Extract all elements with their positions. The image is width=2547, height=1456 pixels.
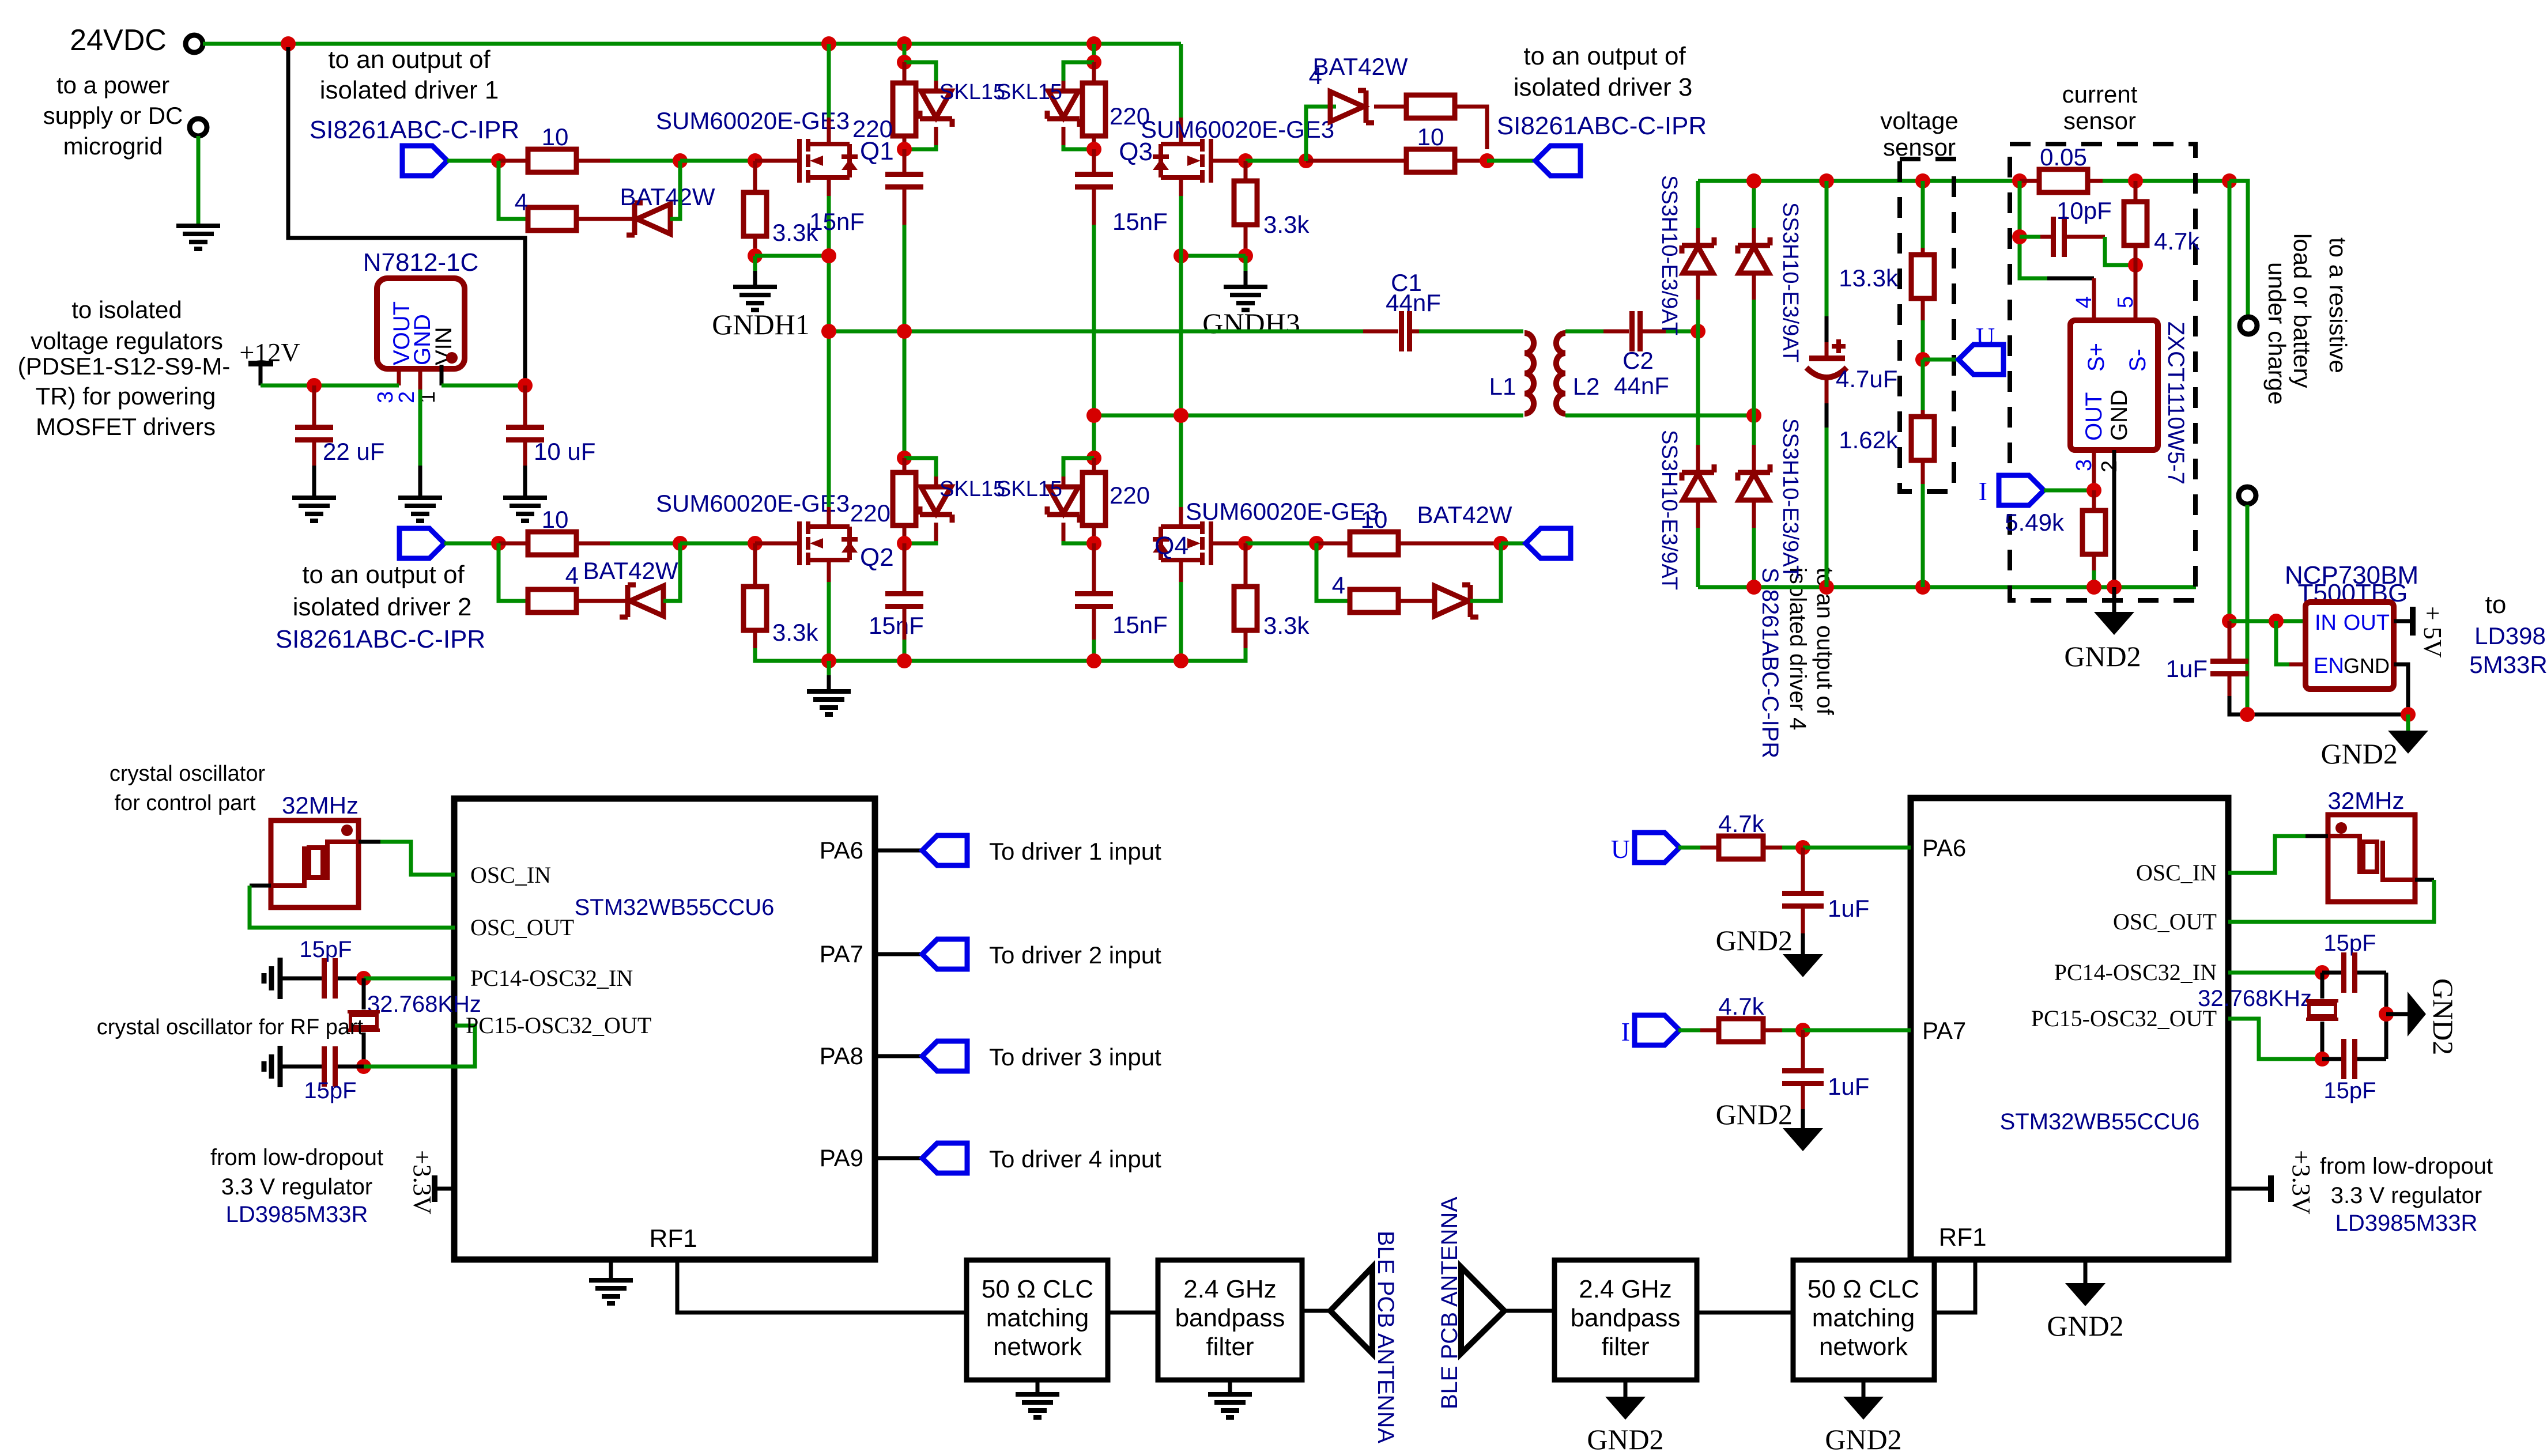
capacitor 15nF snubber4 bottom lead: [1092, 609, 1096, 640]
svg-text:to an output of: to an output of: [302, 561, 465, 589]
resistor 220 snubber1 lead: [903, 62, 907, 83]
crystal 32.768KHz right: [2306, 1001, 2338, 1019]
junction driver2 B: [673, 536, 688, 551]
junction snubber1 bottom: [897, 142, 912, 157]
regulator N7812-1C body: [377, 278, 465, 369]
svg-text:GND2: GND2: [2321, 738, 2398, 770]
wire OSC_IN left: [359, 840, 380, 844]
ground below 22uF: [292, 498, 336, 521]
svg-text:To driver 3 input: To driver 3 input: [989, 1043, 1161, 1071]
svg-text:SKL15: SKL15: [939, 80, 1005, 104]
svg-text:15nF: 15nF: [1112, 208, 1168, 235]
wire 4 to diode driver2: [576, 599, 628, 603]
wire 3.3k Q4 to gnd bus: [1181, 648, 1246, 661]
resistor 4.7k I right lead: [1763, 1028, 1782, 1033]
junction PC14 right: [2315, 965, 2330, 980]
svg-text:SI8261ABC-C-IPR: SI8261ABC-C-IPR: [310, 116, 519, 144]
capacitor 10pF right lead: [2067, 235, 2105, 239]
diode SKL15 snubber2: [1047, 91, 1080, 127]
wire VIN rail right: [442, 384, 525, 388]
junction gate Q1 / 3.3k: [748, 153, 763, 168]
power +5V symbol: [2410, 607, 2416, 636]
wire 24VDC to VIN (black): [288, 47, 525, 382]
svg-text:isolated driver 2: isolated driver 2: [293, 593, 472, 621]
ground GND2 ncp: [2388, 731, 2428, 754]
resistor 4 driver4: [1350, 589, 1398, 612]
svg-text:+3.3V: +3.3V: [2287, 1150, 2315, 1215]
resistor 220 snubber3 bottom lead: [903, 525, 907, 543]
svg-text:network: network: [1819, 1333, 1908, 1361]
wire GNDH3 stem: [1244, 256, 1248, 271]
svg-text:SS3H10-E3/9AT: SS3H10-E3/9AT: [1657, 175, 1681, 335]
svg-text:4: 4: [515, 188, 528, 215]
crystal 32MHz left internals: [271, 842, 359, 886]
svg-text:STM32WB55CCU6: STM32WB55CCU6: [575, 895, 775, 920]
svg-text:220: 220: [850, 500, 890, 527]
wire GND2 stem zxct: [2112, 587, 2116, 612]
resistor 5.49k: [2082, 510, 2105, 554]
svg-text:4: 4: [1309, 62, 1322, 89]
resistor 4 driver3: [1406, 95, 1455, 118]
wire U to 4.7k: [1678, 846, 1700, 850]
svg-text:I: I: [1979, 476, 1987, 506]
pin PA7 stub: [875, 952, 922, 956]
ground GND2 matching right: [1843, 1397, 1884, 1420]
junction driver4 B: [1493, 536, 1508, 551]
svg-text:5M33R: 5M33R: [2469, 651, 2547, 678]
junction busB snubber2 column: [1086, 408, 1101, 423]
pin OUT ncp lead: [2394, 619, 2411, 623]
wire DC+ to NCP in: [2228, 181, 2232, 621]
capacitor C1 right lead: [1412, 330, 1419, 334]
junction DC+ D2: [1746, 173, 1761, 188]
svg-text:current: current: [2062, 81, 2138, 108]
wire C2 to rectifier mid1: [1666, 330, 1698, 334]
junction DC- divider: [1915, 580, 1930, 595]
svg-text:24VDC: 24VDC: [70, 24, 167, 57]
resistor 4 driver2: [528, 589, 576, 612]
wire DC+ to terminal: [2229, 181, 2248, 316]
junction top rail / snubber2: [1086, 36, 1101, 51]
svg-text:OSC_OUT: OSC_OUT: [2113, 909, 2217, 935]
svg-text:isolated driver 4: isolated driver 4: [1785, 568, 1810, 730]
svg-text:RF1: RF1: [649, 1224, 697, 1253]
wire gate Q1: [680, 159, 755, 163]
junction driver1 A: [491, 153, 506, 168]
capacitor 15pF left top: [322, 958, 338, 999]
pin GND lead: [418, 369, 422, 389]
capacitor 1uF bottom lead: [2228, 676, 2232, 696]
capacitor 4.7uF lead top: [1825, 181, 1829, 316]
wire OSC_OUT left: [250, 884, 271, 888]
resistor 10 driver1: [528, 149, 576, 172]
connector to driver4 input: [922, 1143, 967, 1173]
svg-text:GND2: GND2: [1587, 1423, 1663, 1455]
svg-text:SUM60020E-GE3: SUM60020E-GE3: [1186, 498, 1379, 525]
svg-text:SKL15: SKL15: [939, 477, 1005, 501]
svg-text:C2: C2: [1622, 347, 1654, 374]
svg-text:5: 5: [2114, 296, 2138, 308]
connector driver3 output: [1535, 146, 1580, 176]
wire driver1 lower branch left: [499, 161, 528, 219]
svg-text:10pF: 10pF: [2057, 197, 2112, 224]
wire L1 bottom to bus B: [1094, 414, 1523, 418]
svg-text:Q3: Q3: [1119, 138, 1153, 166]
capacitor 15nF snubber4: [1075, 591, 1113, 609]
ground GNDH3 symbol: [1224, 287, 1267, 310]
antenna BLE right: [1461, 1267, 1504, 1353]
IC NCP730 body: [2305, 602, 2394, 689]
capacitor 15pF right top lead: [2322, 971, 2341, 975]
box matching network left: [967, 1260, 1108, 1380]
svg-text:matching: matching: [986, 1304, 1089, 1332]
diode SKL15 snubber4: [1047, 487, 1080, 523]
junction rectifier mid1: [1691, 324, 1705, 339]
resistor 220 snubber2 bottom lead: [1092, 136, 1096, 149]
transistor Q2: [799, 521, 850, 565]
svg-text:GND: GND: [2107, 389, 2132, 441]
diode BAT42W driver1: [627, 203, 670, 235]
wire 3.3k to source Q1: [755, 254, 829, 258]
junction I / 5.49k: [2086, 483, 2101, 498]
junction snubber4 bottom: [1086, 536, 1101, 551]
wire top rail corner to Q3 drain: [1179, 44, 1183, 118]
junction out- gnd2: [2240, 707, 2255, 722]
svg-text:(PDSE1-S12-S9-M-: (PDSE1-S12-S9-M-: [18, 353, 231, 380]
ground matching left stem: [1036, 1380, 1040, 1394]
resistor 220 snubber2: [1082, 83, 1105, 136]
svg-text:OUT: OUT: [2081, 392, 2107, 441]
box matching network right: [1793, 1260, 1934, 1380]
svg-text:3.3 V regulator: 3.3 V regulator: [2331, 1183, 2482, 1208]
terminal out-: [2239, 487, 2256, 504]
svg-text:PA8: PA8: [820, 1042, 863, 1069]
wire 4 to diode driver4: [1398, 599, 1435, 603]
junction driver2 A: [491, 536, 506, 551]
wire snubber1 top: [903, 44, 907, 62]
diode D1 SS3H10: [1682, 237, 1714, 273]
antenna BLE left: [1330, 1267, 1372, 1353]
svg-text:22 uF: 22 uF: [323, 438, 384, 465]
resistor 13.3k: [1911, 255, 1934, 298]
capacitor 10uF lead: [523, 385, 527, 425]
diode D4 SS3H10 cathode lead: [1752, 415, 1756, 445]
ground matching left: [1016, 1394, 1059, 1417]
svg-text:S+: S+: [2084, 343, 2109, 372]
svg-text:LD398: LD398: [2474, 622, 2546, 649]
junction DC- filter cap: [1819, 580, 1834, 595]
IC ZXCT1110 body: [2070, 320, 2158, 450]
svg-text:isolated driver 3: isolated driver 3: [1514, 73, 1693, 101]
svg-text:PC15-OSC32_OUT: PC15-OSC32_OUT: [2031, 1005, 2217, 1031]
ground bandpass left: [1208, 1394, 1252, 1417]
resistor 4.7k U: [1719, 836, 1763, 859]
svg-text:L1: L1: [1489, 373, 1516, 400]
diode D2 SS3H10 cathode lead: [1752, 181, 1756, 228]
junction driver3 B: [1480, 153, 1495, 168]
resistor 220 snubber4: [1082, 472, 1105, 525]
pin VIN lead: [440, 365, 444, 385]
junction gnd2 crystals right: [2379, 1007, 2394, 1022]
svg-text:load or battery: load or battery: [2289, 233, 2316, 388]
diode SKL15 snubber3: [920, 487, 952, 523]
ground GND2 zxct: [2094, 612, 2134, 635]
svg-text:OSC_IN: OSC_IN: [2136, 860, 2217, 886]
resistor 3.3k Q4: [1234, 587, 1257, 630]
wire snubber3 top: [903, 331, 907, 458]
capacitor 1uF I: [1782, 1068, 1824, 1086]
crystal 32MHz right internals: [2328, 836, 2415, 880]
capacitor C2 44nF: [1629, 311, 1643, 351]
svg-text:44nF: 44nF: [1614, 372, 1669, 399]
svg-text:13.3k: 13.3k: [1839, 264, 1899, 292]
resistor 3.3k Q4 lead: [1244, 543, 1248, 587]
svg-text:BAT42W: BAT42W: [1417, 501, 1512, 528]
svg-text:I: I: [1621, 1017, 1630, 1046]
ground primary GND: [807, 691, 851, 714]
wire driver3 upper branch: [1306, 107, 1336, 161]
crystal 32MHz right box: [2328, 815, 2415, 902]
ground left MCU: [589, 1280, 633, 1303]
junction snubber1 top: [897, 55, 912, 70]
wire DC- rail: [1698, 585, 2196, 589]
svg-text:3.3 V regulator: 3.3 V regulator: [221, 1174, 372, 1200]
IC right STM32WB55CCU6 body: [1911, 798, 2228, 1260]
wire gate Q3 to driver3: [1246, 159, 1306, 163]
svg-text:bandpass: bandpass: [1571, 1304, 1681, 1332]
wire diode to junction B driver4: [1470, 543, 1501, 601]
wire U connector: [1923, 358, 1959, 362]
resistor 13.3k bottom lead: [1921, 298, 1925, 320]
ground below regulator: [398, 498, 442, 521]
capacitor 10pF: [2051, 217, 2067, 257]
wire ground bus: [829, 659, 1181, 663]
junction gndbus snubber4: [1086, 653, 1101, 668]
diode SKL15 snubber1: [920, 91, 952, 127]
svg-text:32.768KHz: 32.768KHz: [367, 992, 481, 1017]
svg-text:+ 5V: + 5V: [2418, 606, 2447, 658]
capacitor C1 left lead: [1363, 330, 1398, 334]
svg-text:+12V: +12V: [239, 338, 300, 367]
wire 4 to diode driver1: [576, 217, 635, 221]
wire to PA7 pin: [1803, 1028, 1911, 1033]
terminal out+: [2240, 317, 2257, 334]
resistor 4.7k bottom lead: [2134, 245, 2138, 265]
diode SKL15 snubber3 bottom lead: [934, 523, 938, 541]
capacitor 15nF snubber4 lead: [1092, 543, 1096, 591]
wire 24VDC- to ground: [197, 136, 201, 226]
wire matching right to RF1 right: [1934, 1260, 1975, 1313]
svg-text:+3.3V: +3.3V: [408, 1150, 436, 1215]
resistor 10 driver2 right lead: [576, 542, 610, 546]
resistor 220 snubber3 lead: [903, 458, 907, 472]
svg-text:OSC_IN: OSC_IN: [470, 862, 551, 888]
junction source Q1 / 3.3k link: [821, 248, 836, 263]
svg-text:sensor: sensor: [2063, 107, 2136, 134]
resistor 4.7k U right lead: [1763, 846, 1782, 850]
svg-text:to an output of: to an output of: [328, 46, 490, 74]
svg-text:PC15-OSC32_OUT: PC15-OSC32_OUT: [466, 1012, 651, 1038]
svg-text:10 uF: 10 uF: [534, 438, 595, 465]
capacitor 15nF snubber2: [1075, 172, 1113, 190]
svg-text:L2: L2: [1573, 373, 1600, 400]
connector to driver2 input: [922, 939, 967, 969]
svg-text:GND2: GND2: [1716, 924, 1793, 956]
junction DC+ filter cap: [1819, 173, 1834, 188]
chassis gnd left top: [264, 958, 280, 999]
wire resistor4 driver3 to junction: [1455, 107, 1487, 149]
svg-text:3.3k: 3.3k: [1263, 612, 1310, 639]
wire GND2 stem ncp: [2406, 714, 2410, 731]
junction 10pF tap: [2012, 229, 2027, 244]
wire bandpass to matching right: [1697, 1311, 1793, 1315]
pin PA9 stub: [875, 1156, 922, 1160]
resistor 3.3k Q3: [1234, 181, 1257, 225]
resistor 10 driver1 right lead: [576, 159, 610, 163]
svg-text:GNDH3: GNDH3: [1202, 307, 1300, 339]
svg-text:U: U: [1611, 834, 1630, 864]
junction ncp gnd2: [2401, 707, 2416, 722]
wire snubber4 top: [1092, 415, 1096, 458]
svg-text:network: network: [993, 1333, 1082, 1361]
svg-text:MOSFET drivers: MOSFET drivers: [36, 413, 216, 440]
ground GND2 U: [1783, 954, 1823, 977]
wire snubber1 diode top link: [904, 62, 936, 81]
svg-text:to a resistive: to a resistive: [2325, 237, 2352, 373]
resistor 3.3k Q2: [744, 587, 767, 630]
wire bandpass to antenna left: [1302, 1309, 1331, 1313]
junction busA snubber1 column: [897, 324, 912, 339]
wire driver4 lower branch: [1316, 543, 1350, 601]
svg-text:5.49k: 5.49k: [2005, 509, 2065, 536]
svg-text:OUT: OUT: [2344, 611, 2390, 635]
svg-text:15pF: 15pF: [2323, 931, 2376, 956]
ground below 10uF: [503, 498, 547, 521]
resistor 5.49k bottom lead: [2092, 554, 2096, 570]
junction top rail / Q1 drain: [821, 36, 836, 51]
wire snubber4 diode top link: [1063, 458, 1094, 476]
wire PC15 left: [364, 1026, 475, 1067]
svg-text:bandpass: bandpass: [1175, 1304, 1285, 1332]
wire NCP in: [2229, 619, 2305, 623]
pin GND ncp lead: [2394, 664, 2408, 714]
svg-text:44nF: 44nF: [1386, 289, 1441, 316]
pin S+ lead: [2092, 278, 2096, 320]
diode SKL15 snubber4 bottom lead: [1062, 523, 1066, 541]
wire 10pF to S-: [2105, 237, 2135, 265]
resistor 0.05 shunt lead: [2020, 179, 2039, 183]
svg-text:crystal oscillator: crystal oscillator: [110, 762, 266, 786]
wire antenna to bandpass right: [1504, 1309, 1554, 1313]
svg-text:OSC_OUT: OSC_OUT: [470, 914, 574, 940]
svg-text:10: 10: [542, 506, 569, 533]
diode D4 SS3H10: [1738, 464, 1770, 500]
wire bus A (switch node 1): [829, 330, 1363, 334]
svg-text:IN: IN: [2315, 611, 2337, 635]
junction gate Q4 / 3.3k: [1238, 536, 1253, 551]
wire RF1 left: [677, 1260, 967, 1313]
svg-text:LD3985M33R: LD3985M33R: [226, 1202, 368, 1227]
svg-text:N7812-1C: N7812-1C: [363, 248, 479, 277]
svg-text:GND2: GND2: [1825, 1423, 1901, 1455]
connector U: [1959, 345, 2003, 375]
svg-text:0.05: 0.05: [2040, 143, 2087, 171]
svg-text:3: 3: [373, 391, 398, 403]
svg-text:To driver 1 input: To driver 1 input: [989, 838, 1161, 865]
svg-text:1uF: 1uF: [1828, 1073, 1869, 1100]
ground GND2 right MCU: [2065, 1283, 2105, 1306]
inductor L2 (secondary): [1556, 333, 1565, 414]
capacitor 1uF U lead: [1801, 848, 1805, 891]
svg-text:ZXCT1110W5-7: ZXCT1110W5-7: [2163, 322, 2188, 485]
capacitor C2 left lead: [1603, 330, 1629, 334]
wire 4.7k U to PA6: [1782, 846, 1803, 850]
capacitor 15pF right top: [2341, 952, 2357, 993]
wire OSC_IN right: [2228, 836, 2305, 873]
wire L2 bottom to rectifier mid2: [1565, 414, 1754, 418]
svg-text:50 Ω CLC: 50 Ω CLC: [982, 1275, 1093, 1303]
diode D1 anode lead: [1696, 273, 1700, 300]
resistor 10 driver4 right lead: [1398, 542, 1501, 546]
svg-text:10: 10: [1417, 123, 1444, 150]
svg-text:3.3k: 3.3k: [1263, 211, 1310, 238]
pin GND zxct lead: [2112, 450, 2116, 587]
svg-text:BAT42W: BAT42W: [620, 183, 715, 210]
resistor 220 snubber4 lead: [1092, 458, 1096, 472]
resistor 0.05 right lead: [2088, 179, 2103, 183]
box bandpass right: [1554, 1260, 1697, 1380]
resistor 3.3k Q2 lead: [753, 543, 757, 587]
ground GND2 crystals right: [2408, 992, 2426, 1037]
wire gate Q4: [1211, 542, 1246, 546]
resistor 3.3k Q2 bottom lead: [753, 630, 757, 648]
svg-text:15pF: 15pF: [2323, 1078, 2376, 1103]
junction driver4 A: [1309, 536, 1324, 551]
resistor 220 snubber3: [893, 472, 916, 525]
resistor 3.3k Q1 lead: [753, 161, 757, 192]
svg-text:BAT42W: BAT42W: [583, 557, 678, 584]
wire snubber3 diode top link: [904, 458, 936, 476]
capacitor 15pF right bottom right lead: [2357, 1057, 2386, 1061]
svg-text:S-: S-: [2125, 349, 2150, 372]
crystal 32.768KHz left lead top: [362, 978, 366, 1009]
wire PC14 left: [364, 977, 455, 981]
wire driver1 to junction: [447, 159, 499, 163]
diode D4 anode lead: [1752, 500, 1756, 528]
pin S- lead: [2134, 265, 2138, 320]
resistor 10 driver1 lead: [499, 159, 528, 163]
wire driver1 to gate: [610, 159, 680, 163]
crystal 32.768KHz right lead bottom: [2320, 1022, 2325, 1059]
svg-text:BLE PCB ANTENNA: BLE PCB ANTENNA: [1373, 1231, 1398, 1443]
svg-text:SI8261ABC-C-IPR: SI8261ABC-C-IPR: [1497, 112, 1707, 140]
plus sign 4.7uF: [1832, 339, 1846, 353]
wire gnd stem: [827, 661, 831, 675]
diode D3 anode lead: [1696, 500, 1700, 528]
crystal 32MHz right dot: [2335, 822, 2347, 834]
wire 3.3k Q2 to gnd bus: [755, 648, 829, 661]
svg-text:32MHz: 32MHz: [2327, 787, 2404, 814]
capacitor 22uF lead: [312, 385, 316, 425]
wire snubber2 diode top link: [1063, 62, 1094, 81]
capacitor 15pF left top lead: [280, 977, 322, 981]
svg-text:1uF: 1uF: [1828, 895, 1869, 922]
svg-text:GND2: GND2: [1716, 1098, 1793, 1130]
svg-text:LD3985M33R: LD3985M33R: [2335, 1211, 2478, 1236]
power +3.3V symbol right: [2268, 1175, 2274, 1202]
power +3.3V symbol left: [432, 1175, 437, 1202]
box bandpass left: [1158, 1260, 1302, 1380]
